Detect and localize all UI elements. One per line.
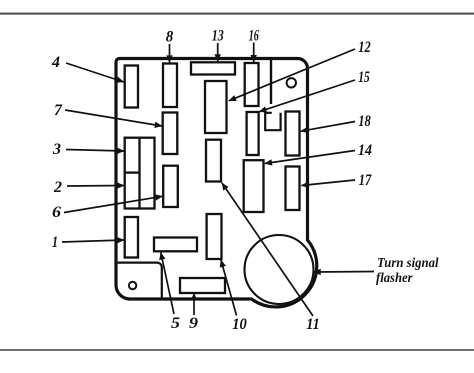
svg-text:4: 4 <box>51 54 60 71</box>
fuse F7 <box>163 113 178 155</box>
svg-text:5: 5 <box>171 315 180 332</box>
callout 13 <box>212 28 224 62</box>
svg-text:flasher: flasher <box>376 271 413 286</box>
callout 12 <box>229 39 371 101</box>
fuse F17 <box>286 167 300 211</box>
svg-text:14: 14 <box>358 142 372 159</box>
fuse F18 <box>286 112 300 156</box>
fuse F12 <box>205 81 227 133</box>
svg-text:1: 1 <box>52 234 58 251</box>
fuse F10 <box>207 214 222 259</box>
svg-text:15: 15 <box>358 69 370 86</box>
fuse F8 <box>163 64 177 108</box>
callout 5 <box>161 252 180 332</box>
callout 14 <box>265 142 372 164</box>
svg-text:18: 18 <box>358 113 371 130</box>
svg-text:12: 12 <box>358 39 371 56</box>
callout 8 <box>166 29 174 63</box>
fuse F11 <box>206 140 221 182</box>
svg-text:16: 16 <box>249 28 259 45</box>
svg-text:2: 2 <box>53 179 62 196</box>
fuse F6 <box>163 166 178 207</box>
fuse cluster divider horizontal <box>125 171 140 173</box>
fuse F1 <box>125 217 138 258</box>
svg-text:17: 17 <box>359 172 373 189</box>
callout 7 <box>54 102 162 126</box>
turn signal flasher circle <box>245 235 314 304</box>
fuse cluster divider vertical <box>138 138 140 209</box>
fuse F14 <box>244 160 264 212</box>
fuse F5 <box>154 238 197 252</box>
svg-text:11: 11 <box>306 316 320 333</box>
callout 4 <box>51 54 124 82</box>
callout 2 <box>53 179 124 196</box>
callout 6 <box>52 196 163 221</box>
notch component <box>265 113 280 130</box>
callout 15 <box>259 69 370 112</box>
svg-text:6: 6 <box>52 204 61 221</box>
callout 16 <box>249 28 259 63</box>
bottom rule <box>0 349 474 351</box>
fuse box outline <box>116 58 317 306</box>
callout 17 <box>301 172 372 189</box>
mounting hole top-right <box>287 78 296 87</box>
fuse F9 <box>180 278 225 293</box>
mounting hole bottom-left <box>129 282 136 289</box>
callout 18 <box>301 113 371 131</box>
fuse cluster F3 F2 outer <box>125 138 155 209</box>
svg-text:9: 9 <box>189 315 198 332</box>
fuse F13 <box>191 62 235 74</box>
callout 9 <box>189 293 198 332</box>
fuse F15 <box>247 112 259 155</box>
callout 10 <box>221 260 247 333</box>
fuse F4 <box>125 66 138 108</box>
svg-text:7: 7 <box>54 102 63 119</box>
svg-text:3: 3 <box>52 141 61 158</box>
svg-text:10: 10 <box>232 316 247 333</box>
interior stub line top-right <box>270 60 272 105</box>
fuse F16 <box>245 63 259 106</box>
svg-text:Turn signal: Turn signal <box>377 256 439 271</box>
callout 11 <box>222 183 320 333</box>
top rule <box>0 13 474 15</box>
callout 1 <box>52 234 124 251</box>
callout 3 <box>52 141 124 158</box>
svg-text:8: 8 <box>166 29 174 46</box>
svg-text:13: 13 <box>212 28 224 45</box>
callout turn signal flasher <box>314 256 439 286</box>
interior step line bottom-left <box>117 263 162 298</box>
